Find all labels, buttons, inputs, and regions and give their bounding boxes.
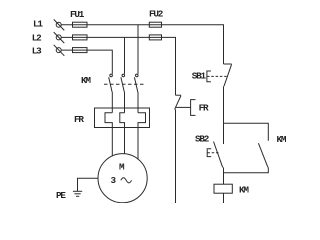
svg-text:SB2: SB2 xyxy=(195,134,210,145)
svg-text:SB1: SB1 xyxy=(192,71,207,82)
svg-text:FU2: FU2 xyxy=(149,9,164,20)
svg-text:FU1: FU1 xyxy=(70,9,85,20)
